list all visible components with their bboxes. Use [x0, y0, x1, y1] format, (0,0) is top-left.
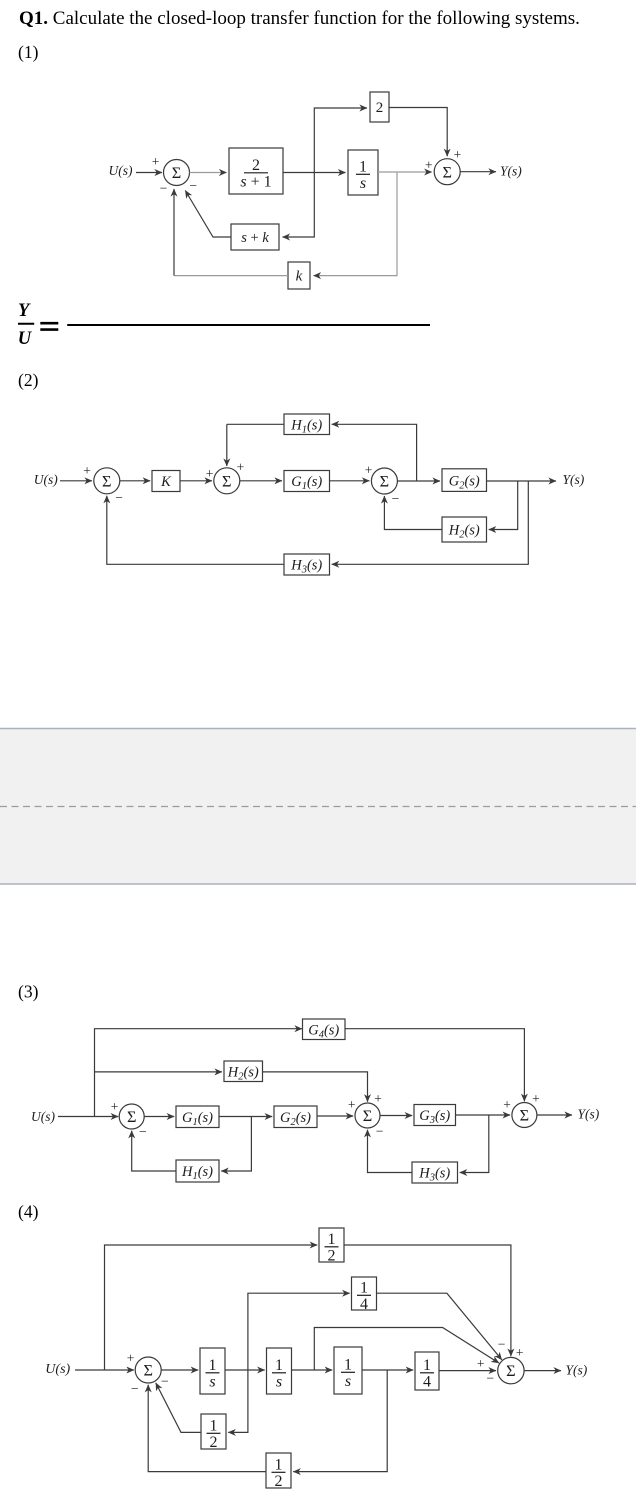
- svg-text:Y(s): Y(s): [578, 1107, 600, 1122]
- svg-text:Y(s): Y(s): [566, 1363, 588, 1378]
- svg-text:s: s: [360, 175, 366, 192]
- svg-text:1: 1: [210, 1418, 218, 1435]
- svg-text:G2(s): G2(s): [449, 473, 480, 491]
- svg-text:−: −: [161, 1374, 169, 1389]
- svg-text:s: s: [345, 1373, 351, 1390]
- svg-text:1: 1: [344, 1357, 352, 1374]
- svg-text:−: −: [498, 1336, 506, 1351]
- svg-text:4: 4: [423, 1373, 431, 1390]
- svg-text:1: 1: [360, 1280, 368, 1297]
- svg-text:H1(s): H1(s): [290, 417, 322, 435]
- svg-text:+: +: [237, 459, 245, 474]
- svg-text:+: +: [348, 1097, 356, 1112]
- svg-text:s + 1: s + 1: [240, 173, 271, 190]
- svg-text:G2(s): G2(s): [280, 1110, 311, 1128]
- svg-text:K: K: [160, 474, 172, 490]
- svg-text:Σ: Σ: [172, 163, 181, 182]
- svg-text:G1(s): G1(s): [291, 474, 322, 492]
- svg-text:+: +: [365, 463, 373, 478]
- svg-text:(1): (1): [18, 42, 39, 62]
- svg-text:+: +: [374, 1091, 382, 1106]
- svg-text:Σ: Σ: [520, 1106, 529, 1125]
- svg-text:−: −: [139, 1124, 147, 1139]
- svg-text:1: 1: [328, 1231, 336, 1248]
- svg-text:Y(s): Y(s): [500, 164, 522, 179]
- svg-text:−: −: [189, 178, 197, 193]
- svg-text:k: k: [296, 269, 303, 285]
- svg-text:2: 2: [252, 157, 260, 174]
- svg-text:Σ: Σ: [506, 1361, 515, 1380]
- svg-text:+: +: [83, 463, 91, 478]
- svg-text:+: +: [454, 147, 462, 162]
- svg-text:+: +: [127, 1351, 135, 1366]
- svg-text:4: 4: [360, 1296, 368, 1313]
- svg-text:Σ: Σ: [363, 1106, 372, 1125]
- svg-text:H1(s): H1(s): [181, 1164, 213, 1182]
- svg-text:2: 2: [210, 1434, 218, 1451]
- svg-text:(4): (4): [18, 1202, 39, 1222]
- svg-text:1: 1: [275, 1357, 283, 1374]
- svg-text:Σ: Σ: [143, 1361, 152, 1380]
- svg-text:U(s): U(s): [31, 1109, 55, 1124]
- svg-text:−: −: [376, 1123, 384, 1138]
- svg-text:+: +: [111, 1099, 119, 1114]
- svg-text:−: −: [160, 180, 168, 195]
- svg-text:(2): (2): [18, 370, 39, 390]
- svg-text:+: +: [532, 1091, 540, 1106]
- svg-text:U(s): U(s): [34, 472, 58, 487]
- svg-text:H2(s): H2(s): [227, 1064, 259, 1082]
- svg-text:Σ: Σ: [222, 471, 231, 490]
- svg-text:U(s): U(s): [109, 163, 133, 178]
- svg-text:+: +: [206, 466, 214, 481]
- svg-text:Y: Y: [18, 301, 31, 321]
- svg-text:Y(s): Y(s): [563, 472, 585, 487]
- svg-text:s: s: [209, 1373, 215, 1390]
- svg-text:s + k: s + k: [241, 230, 269, 246]
- svg-text:H2(s): H2(s): [448, 523, 480, 541]
- svg-text:−: −: [131, 1381, 139, 1396]
- svg-text:1: 1: [359, 159, 367, 176]
- svg-text:−: −: [115, 490, 123, 505]
- svg-text:Σ: Σ: [380, 472, 389, 491]
- svg-text:Q1. Calculate the closed-loop: Q1. Calculate the closed-loop transfer f…: [19, 8, 580, 29]
- svg-text:Σ: Σ: [127, 1107, 136, 1126]
- svg-text:G1(s): G1(s): [182, 1110, 213, 1128]
- svg-text:+: +: [152, 154, 160, 169]
- svg-text:2: 2: [376, 100, 384, 116]
- svg-text:1: 1: [275, 1457, 283, 1474]
- svg-text:U: U: [18, 329, 33, 349]
- svg-text:1: 1: [423, 1357, 431, 1374]
- svg-text:(3): (3): [18, 982, 39, 1002]
- svg-text:+: +: [503, 1097, 511, 1112]
- svg-text:Σ: Σ: [442, 162, 451, 181]
- svg-text:−: −: [392, 491, 400, 506]
- svg-text:−: −: [486, 1371, 494, 1386]
- svg-text:+: +: [425, 158, 433, 173]
- svg-text:H3(s): H3(s): [290, 558, 322, 576]
- svg-text:1: 1: [209, 1357, 217, 1374]
- svg-text:Σ: Σ: [102, 471, 111, 490]
- svg-text:+: +: [477, 1356, 485, 1371]
- svg-text:G3(s): G3(s): [419, 1108, 450, 1126]
- svg-text:G4(s): G4(s): [308, 1022, 339, 1040]
- svg-text:H3(s): H3(s): [418, 1166, 450, 1184]
- svg-text:s: s: [276, 1373, 282, 1390]
- svg-text:2: 2: [328, 1247, 336, 1264]
- svg-text:2: 2: [275, 1473, 283, 1490]
- svg-text:+: +: [516, 1345, 524, 1360]
- svg-text:U(s): U(s): [45, 1362, 70, 1377]
